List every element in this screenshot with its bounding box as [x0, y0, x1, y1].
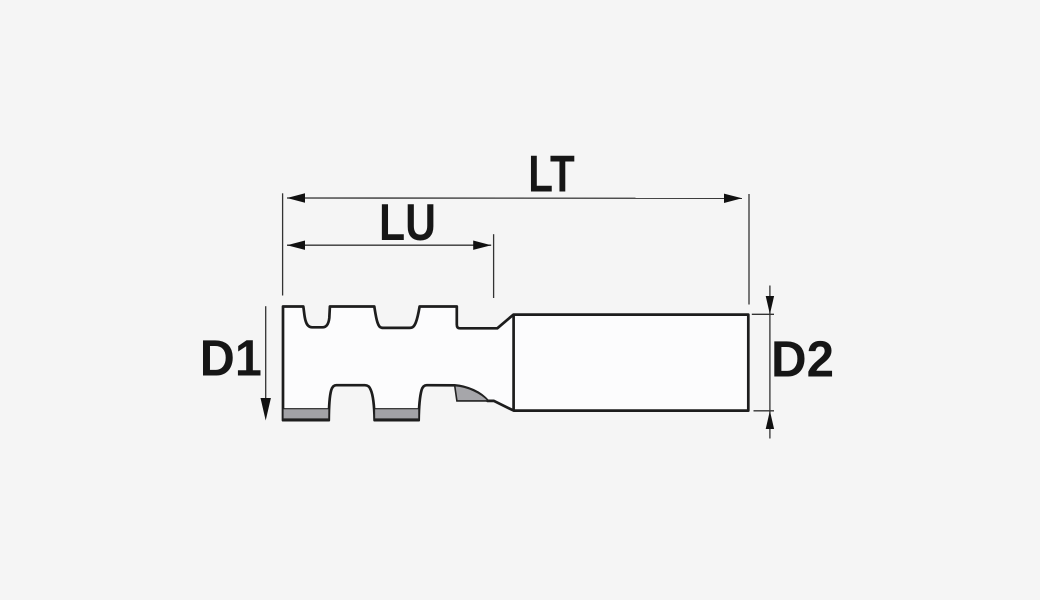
D2 tick top: [752, 313, 774, 315]
shank shoulder line: [512, 315, 515, 411]
svg-text:LU: LU: [379, 194, 436, 252]
label D1 foot of digit 1: [238, 371, 259, 375]
LT arrow right: [724, 194, 742, 203]
LU arrow right: [473, 241, 491, 250]
svg-text:D2: D2: [771, 331, 834, 388]
D2 arrow down: [766, 296, 774, 314]
LU extension line right: [493, 234, 495, 298]
D2 dimension line: [769, 286, 771, 439]
D2 tick bottom: [754, 410, 775, 412]
LT extension line left: [282, 193, 284, 295]
LU arrow left: [287, 241, 305, 250]
carbide strip middle: [375, 409, 419, 419]
LT arrow left: [287, 193, 305, 202]
tool body outline (cutter head + shank): [283, 307, 748, 421]
LT extension line right: [748, 194, 750, 305]
D1 arrow down: [261, 398, 271, 421]
carbide strip left: [283, 409, 329, 419]
D2 arrow up: [766, 411, 774, 429]
D1 dimension line: [265, 306, 267, 400]
LT dimension line: [287, 197, 742, 199]
svg-text:LT: LT: [528, 146, 575, 204]
LU dimension line: [287, 244, 491, 246]
carbide insert on tooth: [455, 386, 489, 401]
svg-text:D1: D1: [200, 329, 262, 386]
